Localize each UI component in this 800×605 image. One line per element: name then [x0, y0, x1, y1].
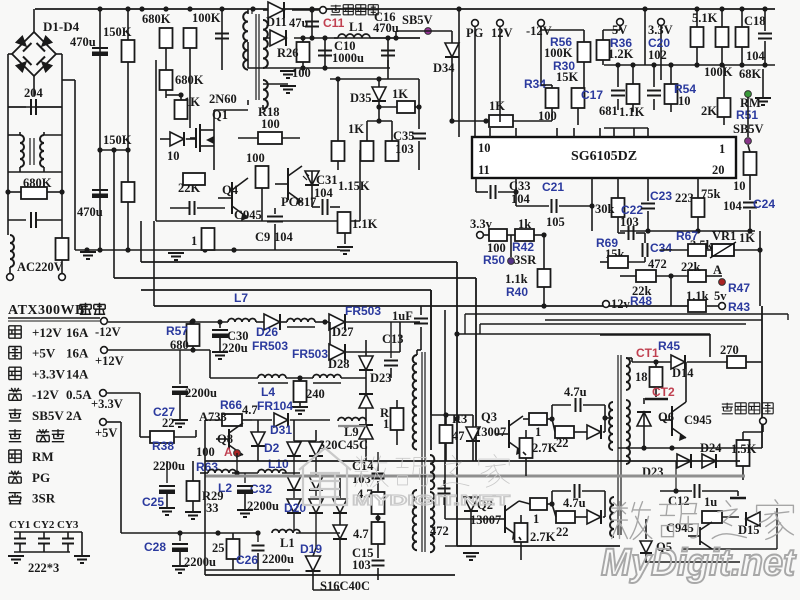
svg-text:A: A [713, 263, 722, 277]
svg-text:1K: 1K [739, 231, 755, 245]
svg-text:PG: PG [32, 470, 50, 485]
svg-text:R43: R43 [728, 300, 750, 314]
svg-text:13007: 13007 [470, 513, 501, 527]
svg-text:1000u: 1000u [332, 51, 364, 65]
svg-text:CY2: CY2 [33, 519, 55, 531]
svg-text:D23: D23 [370, 371, 392, 385]
svg-text:AC220V: AC220V [17, 260, 63, 274]
svg-text:CY3: CY3 [57, 519, 79, 531]
svg-text:1.1K: 1.1K [352, 217, 378, 231]
svg-text:+5V: +5V [95, 426, 117, 440]
svg-text:R57: R57 [166, 324, 188, 338]
svg-text:103: 103 [352, 558, 371, 572]
svg-text:1u: 1u [704, 495, 717, 509]
svg-text:D15: D15 [738, 523, 760, 537]
svg-text:FR503: FR503 [292, 347, 328, 361]
svg-text:100: 100 [261, 117, 280, 131]
svg-text:C17: C17 [581, 88, 603, 102]
svg-text:20: 20 [712, 163, 725, 177]
svg-text:470u: 470u [70, 35, 96, 49]
svg-text:SG6105DZ: SG6105DZ [571, 149, 637, 164]
svg-text:C18: C18 [744, 14, 766, 28]
svg-text:470u: 470u [77, 205, 103, 219]
svg-text:L10: L10 [268, 457, 289, 471]
svg-text:2200u: 2200u [185, 386, 217, 400]
svg-text:22: 22 [556, 525, 569, 539]
svg-text:2.7K: 2.7K [532, 441, 558, 455]
svg-text:1.2K: 1.2K [608, 47, 634, 61]
svg-text:CT2: CT2 [652, 385, 675, 399]
svg-text:D1-D4: D1-D4 [43, 19, 80, 34]
svg-text:2200u: 2200u [247, 499, 279, 513]
svg-text:C31: C31 [316, 173, 338, 187]
svg-text:-12V: -12V [526, 24, 552, 38]
svg-text:1.1K: 1.1K [619, 105, 645, 119]
svg-text:4.7u: 4.7u [564, 385, 587, 399]
svg-text:R3: R3 [452, 412, 467, 426]
svg-text:-12V: -12V [32, 387, 59, 402]
svg-text:L4: L4 [261, 385, 275, 399]
svg-text:D2: D2 [264, 441, 280, 455]
svg-text:-12V: -12V [95, 325, 121, 339]
svg-text:10: 10 [478, 141, 491, 155]
svg-text:4.7: 4.7 [242, 403, 258, 417]
svg-text:15K: 15K [556, 70, 579, 84]
svg-text:R47: R47 [728, 281, 750, 295]
svg-text:3SR: 3SR [514, 253, 537, 267]
svg-text:C24: C24 [753, 197, 775, 211]
svg-text:104: 104 [746, 49, 766, 63]
svg-text:R42: R42 [512, 240, 534, 254]
svg-text:5.1K: 5.1K [692, 11, 718, 25]
svg-text:240: 240 [306, 387, 325, 401]
svg-text:100K: 100K [192, 11, 221, 25]
svg-text:104: 104 [511, 192, 531, 206]
svg-text:+3.3V: +3.3V [91, 397, 123, 411]
svg-text:R45: R45 [658, 339, 680, 353]
svg-text:C13: C13 [382, 332, 404, 346]
svg-text:R34: R34 [524, 77, 546, 91]
svg-text:104: 104 [314, 186, 334, 200]
svg-text:MyDigit.net: MyDigit.net [601, 542, 796, 584]
svg-text:10: 10 [678, 94, 691, 108]
svg-text:L9: L9 [344, 425, 359, 439]
svg-text:150K: 150K [103, 133, 132, 147]
svg-text:S16C40C: S16C40C [320, 579, 370, 593]
svg-text:1K: 1K [348, 122, 364, 136]
svg-text:1uF: 1uF [392, 309, 413, 323]
svg-text:+12V: +12V [95, 354, 124, 368]
svg-text:R38: R38 [152, 439, 174, 453]
svg-text:L1: L1 [280, 536, 295, 550]
svg-text:SB5V: SB5V [402, 13, 433, 27]
svg-text:16A: 16A [66, 346, 89, 361]
svg-text:A: A [224, 445, 233, 459]
svg-text:C28: C28 [144, 540, 166, 554]
svg-text:C21: C21 [542, 180, 564, 194]
svg-text:D26: D26 [256, 325, 278, 339]
svg-text:S20C45C: S20C45C [318, 438, 368, 452]
svg-text:FR104: FR104 [257, 399, 293, 413]
svg-text:105: 105 [546, 215, 565, 229]
svg-text:D11: D11 [266, 15, 287, 29]
svg-text:1K: 1K [392, 87, 408, 101]
svg-text:12v: 12v [611, 297, 631, 311]
svg-text:1K: 1K [489, 99, 505, 113]
svg-text:18: 18 [635, 370, 648, 384]
svg-text:3SR: 3SR [32, 491, 56, 506]
svg-text:30k: 30k [595, 202, 615, 216]
svg-text:D31: D31 [270, 423, 292, 437]
svg-text:C32: C32 [250, 482, 272, 496]
svg-text:470u: 470u [373, 21, 399, 35]
svg-text:472: 472 [430, 524, 449, 538]
svg-text:SB5V: SB5V [32, 408, 64, 423]
svg-text:22k: 22k [681, 260, 701, 274]
svg-text:1.5K: 1.5K [731, 442, 757, 456]
svg-text:103: 103 [620, 215, 639, 229]
svg-text:C11: C11 [323, 16, 345, 30]
svg-text:D27: D27 [332, 325, 354, 339]
svg-text:+5V: +5V [32, 346, 56, 361]
svg-text:C34: C34 [650, 241, 672, 255]
svg-text:MYDIGIT.NET: MYDIGIT.NET [352, 492, 510, 509]
svg-text:2A: 2A [66, 408, 83, 423]
svg-text:C23: C23 [650, 189, 672, 203]
svg-text:1k: 1k [518, 217, 531, 231]
svg-text:2K: 2K [701, 104, 717, 118]
svg-text:25: 25 [212, 541, 225, 555]
svg-text:100: 100 [538, 109, 557, 123]
svg-text:4.7u: 4.7u [563, 496, 586, 510]
svg-text:681: 681 [599, 104, 618, 118]
svg-text:D14: D14 [672, 366, 694, 380]
svg-text:1: 1 [191, 234, 197, 248]
svg-text:C26: C26 [236, 553, 258, 567]
svg-text:FR503: FR503 [252, 339, 288, 353]
svg-text:150K: 150K [103, 25, 132, 39]
svg-text:FR503: FR503 [345, 304, 381, 318]
svg-text:75k: 75k [701, 187, 721, 201]
svg-text:R26: R26 [277, 46, 299, 60]
svg-text:L1: L1 [349, 20, 364, 34]
svg-text:2200u: 2200u [153, 459, 185, 473]
svg-text:RM: RM [32, 449, 54, 464]
svg-text:222*3: 222*3 [28, 561, 59, 575]
svg-text:R48: R48 [630, 294, 652, 308]
svg-text:104: 104 [723, 199, 743, 213]
svg-text:100: 100 [246, 151, 265, 165]
svg-text:C33: C33 [509, 179, 531, 193]
svg-text:L7: L7 [234, 291, 248, 305]
svg-text:1.1k: 1.1k [505, 272, 528, 286]
svg-text:10: 10 [733, 179, 746, 193]
svg-text:C35: C35 [393, 129, 415, 143]
svg-text:+3.3V: +3.3V [32, 366, 66, 381]
svg-text:47u: 47u [289, 16, 309, 30]
svg-text:R51: R51 [736, 108, 758, 122]
svg-text:1: 1 [533, 512, 539, 526]
svg-text:47: 47 [452, 429, 465, 443]
svg-text:D35: D35 [350, 91, 372, 105]
svg-text:102: 102 [648, 48, 667, 62]
svg-text:1: 1 [535, 425, 541, 439]
svg-text:22: 22 [556, 436, 569, 450]
svg-text:16A: 16A [66, 325, 89, 340]
svg-text:CY1: CY1 [9, 519, 30, 531]
svg-text:2N60: 2N60 [209, 92, 237, 106]
svg-text:Q4: Q4 [222, 183, 239, 197]
svg-text:104: 104 [274, 230, 294, 244]
svg-text:0.5A: 0.5A [66, 387, 92, 402]
svg-text:100K: 100K [704, 65, 733, 79]
svg-text:103: 103 [395, 142, 414, 156]
svg-text:R40: R40 [506, 285, 528, 299]
svg-text:Q3: Q3 [481, 410, 497, 424]
svg-text:A733: A733 [199, 410, 227, 424]
svg-text:12V: 12V [491, 26, 513, 40]
svg-text:22: 22 [162, 416, 175, 430]
svg-text:1: 1 [719, 142, 725, 156]
svg-text:5v: 5v [714, 289, 727, 303]
svg-text:VR1: VR1 [712, 229, 736, 243]
svg-text:68K: 68K [739, 67, 762, 81]
svg-text:1.15K: 1.15K [338, 179, 370, 193]
svg-text:11: 11 [478, 163, 490, 177]
svg-text:2.7K: 2.7K [530, 530, 556, 544]
svg-text:13007: 13007 [475, 425, 506, 439]
svg-text:33: 33 [206, 501, 219, 515]
svg-text:10: 10 [167, 149, 180, 163]
svg-text:D19: D19 [300, 542, 322, 556]
svg-text:4.7: 4.7 [353, 527, 369, 541]
svg-text:CT1: CT1 [636, 346, 659, 360]
svg-text:472: 472 [648, 257, 667, 271]
svg-text:100K: 100K [544, 46, 573, 60]
svg-text:C25: C25 [142, 495, 164, 509]
svg-text:ATX300WB: ATX300WB [8, 303, 85, 318]
svg-text:R50: R50 [483, 253, 505, 267]
svg-text:2200u: 2200u [184, 555, 216, 569]
svg-text:C9: C9 [255, 230, 270, 244]
svg-text:D28: D28 [328, 357, 350, 371]
svg-text:+12V: +12V [32, 325, 62, 340]
svg-text:680K: 680K [142, 12, 171, 26]
svg-text:270: 270 [720, 343, 739, 357]
svg-text:C12: C12 [668, 494, 690, 508]
svg-text:C945: C945 [684, 413, 712, 427]
svg-text:14A: 14A [66, 366, 89, 381]
svg-text:2200u: 2200u [262, 552, 294, 566]
